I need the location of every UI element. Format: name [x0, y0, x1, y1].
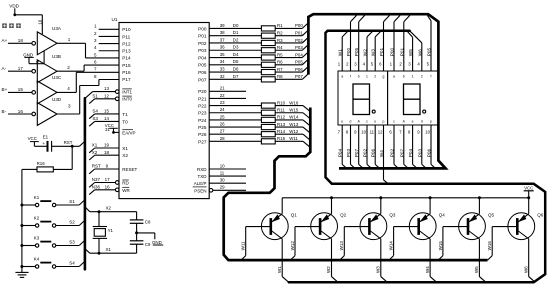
wire left signal bus: [84, 98, 87, 269]
svg-text:R14: R14: [277, 129, 286, 134]
svg-text:R8: R8: [277, 74, 283, 79]
svg-text:S3: S3: [92, 116, 98, 121]
wire DS2 bottom pin 10 net P06: [425, 125, 435, 168]
svg-text:S4: S4: [69, 261, 75, 266]
svg-text:d: d: [350, 120, 352, 124]
svg-text:INT0: INT0: [122, 97, 132, 102]
U1 pins T1 T0: [104, 109, 128, 125]
svg-text:10: 10: [361, 130, 366, 135]
input wire B+ pin 15: [2, 87, 32, 92]
node W14 net label and bus entry: [289, 115, 310, 126]
svg-text:P04: P04: [408, 148, 413, 157]
svg-text:VCC: VCC: [28, 136, 37, 141]
node RST junction: [64, 140, 85, 148]
wire DS1 top pin 1 net W1: [338, 31, 348, 71]
node S1 to INT0 pin 12: [89, 93, 115, 103]
svg-text:C9: C9: [145, 242, 151, 247]
svg-text:Q2: Q2: [340, 213, 347, 218]
svg-text:X1: X1: [122, 146, 128, 151]
svg-text:D5: D5: [233, 59, 239, 64]
svg-text:29: 29: [220, 185, 225, 190]
svg-text:34: 34: [220, 59, 225, 64]
svg-text:W13: W13: [339, 241, 344, 251]
input wire A+ pin 18: [2, 38, 32, 43]
wire Q6 collector to W6 bus: [523, 239, 535, 282]
svg-text:K4: K4: [34, 256, 40, 261]
svg-text:P07: P07: [399, 148, 404, 157]
crystal Y1: [93, 212, 114, 254]
wire Q5 collector to W5 bus: [474, 239, 486, 282]
wire Q2 base from W12: [290, 227, 321, 261]
resistor R11: [209, 108, 303, 116]
svg-text:14: 14: [104, 116, 109, 121]
wire Q4 emitter to rail: [429, 196, 432, 214]
node P07 net label and bus entry: [295, 74, 308, 79]
svg-text:P24: P24: [198, 118, 207, 123]
svg-text:P23: P23: [198, 111, 207, 116]
node X2 wire: [85, 206, 137, 214]
svg-text:INT1: INT1: [122, 90, 132, 95]
svg-text:P01: P01: [379, 47, 384, 56]
svg-text:D2: D2: [233, 37, 239, 42]
svg-text:WR: WR: [122, 188, 130, 193]
svg-text:B-: B-: [2, 109, 7, 114]
U1 right stubs P20 P21 RXD TXD ALE PSEN: [209, 91, 246, 190]
svg-text:TXD: TXD: [198, 174, 208, 179]
svg-text:S2: S2: [69, 220, 75, 225]
svg-text:19: 19: [104, 143, 110, 148]
wire DS2 top pin 1 net P00: [390, 15, 401, 71]
svg-text:27: 27: [220, 129, 225, 134]
svg-text:R15: R15: [277, 136, 286, 141]
svg-text:W13: W13: [289, 122, 299, 127]
svg-text:Q1: Q1: [291, 213, 298, 218]
svg-text:C8: C8: [145, 219, 151, 224]
wire DS1 top pin 3 net P05: [354, 15, 365, 71]
node W15 net label and bus entry: [289, 108, 310, 119]
svg-text:17: 17: [105, 177, 111, 182]
svg-text:18: 18: [104, 150, 110, 155]
svg-text:W16: W16: [289, 100, 299, 105]
svg-text:D3: D3: [233, 45, 239, 50]
svg-text:P04: P04: [198, 55, 207, 60]
node P05 net label and bus entry: [295, 59, 308, 64]
svg-text:1: 1: [366, 75, 368, 79]
U1 pins X1 X2: [122, 146, 128, 158]
svg-text:R11: R11: [277, 108, 285, 113]
svg-text:W11: W11: [289, 136, 298, 141]
svg-text:3: 3: [68, 103, 71, 108]
svg-text:W16: W16: [487, 241, 492, 251]
wire DS1 top pin 6 net P01: [379, 15, 390, 71]
svg-text:4: 4: [67, 86, 70, 91]
wire DS1 top pin 5 net W3: [371, 31, 381, 71]
svg-text:P04: P04: [338, 148, 343, 157]
svg-text:U3C: U3C: [52, 75, 62, 80]
resistor R5: [209, 52, 302, 60]
resistor R6: [209, 60, 302, 68]
svg-text:P21: P21: [198, 96, 207, 101]
wire DS2 bottom pin 8 net P04: [408, 125, 417, 168]
display DS2 7-seg glyph: [404, 84, 426, 115]
pin number 36 and label D3: [220, 45, 239, 50]
wire DS1 bottom pin 9 net P07: [354, 125, 363, 168]
svg-text:P00: P00: [346, 47, 351, 56]
wire Q1 emitter to rail: [281, 198, 283, 214]
node P37 to RD pin 17: [89, 177, 115, 187]
resistor R12: [209, 115, 303, 123]
wire Q3 emitter to rail: [379, 196, 382, 214]
node P06 net label and bus entry: [295, 67, 308, 72]
svg-text:K3: K3: [34, 235, 40, 240]
inverter U3B: [32, 54, 61, 83]
U1 pin 31 EA/VP: [105, 127, 136, 135]
svg-text:P15: P15: [122, 63, 131, 68]
svg-text:P05: P05: [427, 47, 432, 56]
IC U1 (8051 microcontroller): [112, 17, 210, 198]
svg-text:P07: P07: [295, 74, 303, 79]
wire VDD to U3 pin 10: [15, 15, 43, 34]
svg-text:K1: K1: [34, 195, 40, 200]
svg-text:p: p: [430, 120, 432, 124]
wire DS1 bottom pin 8 net P03: [346, 125, 355, 168]
input wire B- pin 16: [2, 109, 32, 114]
svg-text:P25: P25: [198, 125, 207, 130]
svg-text:U1: U1: [112, 17, 118, 22]
svg-text:W5: W5: [474, 266, 479, 273]
svg-text:D7: D7: [233, 74, 239, 79]
svg-text:37: 37: [220, 37, 225, 42]
svg-text:RXD: RXD: [197, 167, 207, 172]
wire U3D out (3) to U1 P17: [57, 80, 119, 115]
pin number 38 and label D1: [220, 30, 239, 35]
display DS2 box: [388, 71, 438, 125]
wire Q5 base from W15: [438, 227, 469, 261]
resistor R4: [209, 45, 302, 53]
svg-text:P16: P16: [122, 70, 131, 75]
switch K3: [20, 235, 55, 247]
svg-text:W14: W14: [289, 115, 299, 120]
svg-text:33: 33: [220, 66, 225, 71]
svg-text:2: 2: [67, 65, 70, 70]
display DS1 7-seg glyph: [353, 84, 375, 115]
U1 pin 29 PSEN bubble: [209, 189, 213, 193]
inverter U3A: [32, 26, 62, 55]
svg-text:Y1: Y1: [108, 228, 114, 233]
svg-text:N37: N37: [92, 177, 101, 182]
wire Q2 collector to W2 bus: [326, 239, 338, 282]
svg-text:R6: R6: [277, 60, 283, 65]
svg-text:W4: W4: [379, 150, 384, 157]
svg-text:R7: R7: [277, 67, 283, 72]
svg-text:25: 25: [220, 114, 225, 119]
svg-text:P14: P14: [122, 56, 131, 61]
svg-text:T0: T0: [122, 119, 128, 124]
node P36 to WR pin 16: [89, 185, 115, 195]
node S3 to bus: [56, 240, 84, 246]
svg-text:W2: W2: [363, 49, 368, 56]
svg-text:W1: W1: [338, 49, 343, 56]
svg-text:b: b: [358, 75, 360, 79]
node X1 wire: [85, 247, 137, 255]
svg-text:28: 28: [220, 136, 225, 141]
svg-text:P10: P10: [122, 27, 131, 32]
svg-text:e: e: [341, 120, 343, 124]
svg-text:18: 18: [18, 38, 24, 43]
wire U3C out (4) to U1 P16: [57, 72, 119, 92]
node W13 net label and bus entry: [289, 122, 310, 133]
wire DS1 bottom pin 12 net W4: [378, 125, 389, 184]
svg-text:R16: R16: [37, 161, 46, 166]
svg-text:15: 15: [104, 109, 109, 114]
node P00 net label and bus entry: [295, 23, 308, 28]
svg-text:30: 30: [220, 178, 225, 183]
wire DS2 top pin 3 net W5: [407, 31, 413, 71]
power VCC at EA/VP: [105, 123, 119, 134]
U1 pin 16 WR (bubble): [115, 187, 130, 193]
svg-text:R4: R4: [277, 45, 283, 50]
display DS1 box: [338, 71, 388, 125]
resistor R15: [209, 136, 303, 144]
svg-text:f: f: [431, 75, 432, 79]
wire DS2 bottom pin 6 net P02: [389, 125, 398, 168]
node W16 net label and bus entry: [289, 100, 310, 111]
ground: [15, 270, 28, 277]
svg-text:N36: N36: [92, 185, 101, 190]
svg-text:D4: D4: [233, 52, 239, 57]
resistor R16: [22, 146, 72, 172]
svg-text:P03: P03: [417, 148, 422, 157]
svg-text:24: 24: [220, 107, 225, 112]
node W11 net label and bus entry: [289, 136, 310, 147]
svg-text:c: c: [393, 120, 395, 124]
svg-text:Q4: Q4: [439, 213, 446, 218]
svg-text:P27: P27: [198, 139, 207, 144]
svg-text:P06: P06: [427, 148, 432, 157]
resistor R1: [209, 23, 302, 31]
display DS1 inner segment letters: [341, 75, 384, 124]
svg-text:13: 13: [104, 86, 109, 91]
svg-text:P05: P05: [295, 60, 303, 65]
switch K1: [20, 195, 55, 207]
svg-text:S4: S4: [92, 109, 98, 114]
wire Q5 emitter to rail: [478, 196, 481, 214]
capacitor E1 (electrolytic): [34, 134, 79, 151]
svg-text:11: 11: [370, 130, 375, 135]
svg-text:W12: W12: [290, 241, 295, 251]
svg-text:EA/VP: EA/VP: [122, 130, 135, 135]
svg-text:P06: P06: [295, 67, 303, 72]
svg-text:P02: P02: [363, 148, 368, 157]
wire Q6 emitter to rail: [527, 196, 530, 214]
svg-text:X2: X2: [92, 150, 98, 155]
svg-text:P05: P05: [354, 47, 359, 56]
svg-text:21: 21: [220, 86, 225, 91]
wire bus to INT1 pin 13: [85, 92, 115, 99]
svg-text:P01: P01: [198, 34, 207, 39]
node S4 to bus: [56, 261, 84, 267]
power VDD: [9, 4, 19, 17]
svg-text:Q3: Q3: [389, 213, 396, 218]
switch K4: [20, 256, 55, 268]
svg-text:VCC: VCC: [524, 186, 533, 191]
capacitor C8: [130, 212, 151, 241]
power VCC for reset: [28, 136, 39, 146]
svg-text:R10: R10: [277, 100, 286, 105]
wire DS1 bottom pin 11 net P06: [370, 125, 380, 168]
inverter U3D: [32, 97, 62, 126]
svg-text:P03: P03: [346, 148, 351, 157]
svg-text:RST: RST: [92, 164, 101, 169]
wire emitter rail: [282, 197, 529, 199]
svg-text:P13: P13: [122, 49, 131, 54]
node S1 to bus: [56, 199, 84, 205]
U1 right labels P00-P07: [198, 26, 207, 82]
U1 pin 17 RD (bubble): [115, 180, 129, 186]
svg-text:36: 36: [220, 45, 225, 50]
svg-text:2: 2: [374, 75, 376, 79]
U1 left labels P10-P17: [122, 27, 131, 82]
svg-text:W6: W6: [523, 266, 528, 273]
node S3 to T0 pin 14: [89, 116, 119, 126]
svg-text:U3B: U3B: [52, 54, 61, 59]
svg-text:e: e: [374, 120, 376, 124]
power VCC right: [524, 186, 534, 198]
transistor Q5: [459, 213, 495, 240]
wire DS2 top pin 2 net P01: [399, 15, 410, 71]
wire bus P00-P07 loop around display block: [308, 14, 445, 168]
svg-text:W15: W15: [438, 241, 443, 251]
svg-text:R1: R1: [277, 23, 283, 28]
U1 pin 13 INT1 (bubble): [104, 86, 133, 94]
svg-text:W11: W11: [241, 241, 246, 250]
U1 right labels P20-P27: [198, 89, 207, 144]
wire DS1 top pin 2 net P00: [346, 15, 357, 71]
svg-text:S1: S1: [69, 199, 75, 204]
wire DS2 top pin 4 net W6: [410, 31, 422, 71]
svg-text:P02: P02: [390, 148, 395, 157]
wire GND to U3 pin 9: [29, 51, 44, 64]
wire bus W11-W16 (base drive): [224, 108, 488, 261]
svg-text:16: 16: [18, 109, 24, 114]
svg-text:P01: P01: [399, 47, 404, 56]
inverter U3C: [32, 75, 62, 104]
display DS2 inner segment letters: [393, 75, 432, 124]
svg-text:W3: W3: [371, 49, 376, 56]
svg-text:VCC: VCC: [105, 123, 114, 128]
node W12 net label and bus entry: [289, 129, 310, 140]
wire Q6 base from W16: [487, 227, 518, 261]
svg-text:P26: P26: [198, 132, 207, 137]
svg-text:W5: W5: [408, 49, 413, 56]
svg-text:35: 35: [220, 52, 225, 57]
pin number 37 and label D2: [220, 37, 239, 42]
svg-text:P20: P20: [198, 89, 207, 94]
svg-text:P06: P06: [198, 70, 207, 75]
svg-text:S1: S1: [92, 93, 98, 98]
svg-text:R2: R2: [277, 30, 283, 35]
svg-text:P07: P07: [198, 77, 207, 82]
svg-text:Q6: Q6: [537, 213, 544, 218]
svg-text:P00: P00: [198, 26, 207, 31]
svg-text:P01: P01: [295, 30, 303, 35]
svg-text:U3A: U3A: [52, 26, 62, 31]
pin number 34 and label D5: [220, 59, 239, 64]
svg-text:R3: R3: [277, 38, 283, 43]
transistor Q4: [409, 213, 445, 240]
capacitor C9: [130, 241, 151, 253]
svg-text:S3: S3: [69, 240, 75, 245]
input wire A- pin 17: [2, 66, 32, 71]
transistor Q3: [360, 213, 396, 240]
svg-text:23: 23: [220, 100, 225, 105]
svg-text:W14: W14: [389, 241, 394, 251]
svg-text:26: 26: [220, 121, 225, 126]
svg-text:RST: RST: [64, 140, 73, 145]
svg-text:P02: P02: [198, 41, 207, 46]
svg-text:R5: R5: [277, 52, 283, 57]
svg-text:P02: P02: [295, 38, 303, 43]
svg-text:1: 1: [412, 75, 414, 79]
svg-text:GND: GND: [152, 240, 162, 245]
pin number 39 and label D0: [220, 23, 239, 28]
svg-text:+: +: [42, 142, 45, 147]
ground GND for U3 (pin 9): [23, 52, 33, 63]
resistor R14: [209, 129, 303, 137]
svg-text:W1: W1: [277, 266, 282, 273]
right stub pin numbers: [220, 86, 225, 190]
svg-text:X2: X2: [122, 153, 128, 158]
wire Q2 emitter to rail: [330, 196, 333, 214]
wire Q4 collector to W4 bus: [425, 239, 437, 282]
svg-text:g: g: [383, 75, 385, 79]
svg-text:P22: P22: [198, 104, 207, 109]
svg-text:GND: GND: [23, 52, 33, 57]
svg-text:11: 11: [220, 171, 225, 176]
svg-text:12: 12: [378, 130, 383, 135]
svg-text:P03: P03: [295, 45, 303, 50]
svg-text:PSEN: PSEN: [194, 188, 206, 193]
wire DS1 bottom pin 7 net P04: [338, 125, 347, 168]
svg-text:10: 10: [220, 163, 225, 168]
svg-text:P06: P06: [371, 148, 376, 157]
wire bus W1-W6 loop (digit commons): [289, 31, 545, 283]
svg-text:P12: P12: [122, 41, 131, 46]
svg-text:K2: K2: [34, 215, 40, 220]
svg-text:22: 22: [220, 93, 225, 98]
wire Q1 base from W11: [241, 227, 272, 261]
svg-text:32: 32: [220, 74, 225, 79]
wire U3A out (1) to U1 P14: [57, 37, 119, 58]
svg-text:A-: A-: [2, 66, 7, 71]
svg-text:T1: T1: [122, 112, 128, 117]
svg-text:W12: W12: [289, 129, 299, 134]
resistor R3: [209, 38, 302, 46]
wire DS1 top pin 4 net W2: [363, 31, 373, 71]
wire DS2 bottom pin 9 net P03: [417, 125, 426, 168]
node P02 net label and bus entry: [295, 38, 308, 43]
transistor Q6: [508, 213, 544, 240]
wire DS1 bottom pin 10 net P02: [361, 125, 371, 168]
svg-text:12: 12: [104, 94, 109, 99]
svg-text:X2: X2: [106, 206, 112, 211]
pin number 33 and label D6: [220, 66, 239, 71]
wire ground rail: [21, 169, 23, 270]
svg-text:P00: P00: [295, 23, 303, 28]
svg-text:P11: P11: [122, 34, 130, 39]
svg-text:W15: W15: [289, 108, 299, 113]
node P03 net label and bus entry: [295, 45, 308, 50]
